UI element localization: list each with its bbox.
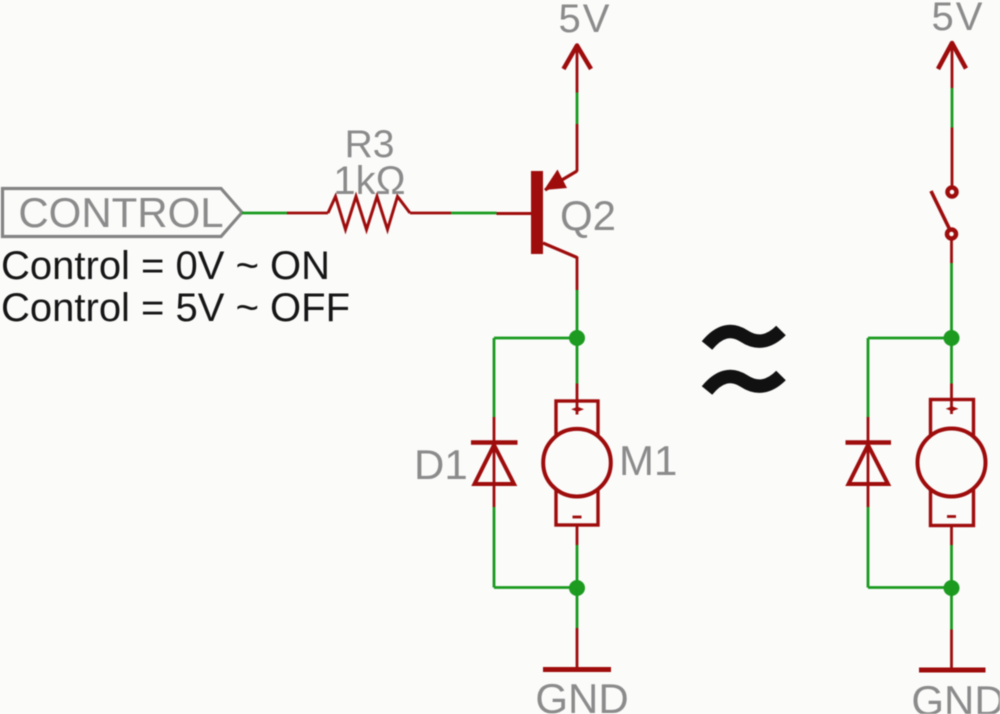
svg-text:Control = 5V ~ OFF: Control = 5V ~ OFF (1, 286, 350, 330)
svg-text:M1: M1 (619, 437, 677, 484)
svg-text:CONTROL: CONTROL (18, 189, 223, 236)
svg-text:5V: 5V (932, 0, 985, 39)
svg-text:Control = 0V ~ ON: Control = 0V ~ ON (1, 244, 330, 288)
svg-text:Q2: Q2 (560, 192, 616, 239)
svg-text:D1: D1 (414, 441, 468, 488)
svg-text:5V: 5V (559, 0, 612, 41)
svg-text:1kΩ: 1kΩ (333, 159, 405, 203)
svg-text:GND: GND (535, 675, 628, 714)
svg-text:GND: GND (911, 677, 1000, 714)
